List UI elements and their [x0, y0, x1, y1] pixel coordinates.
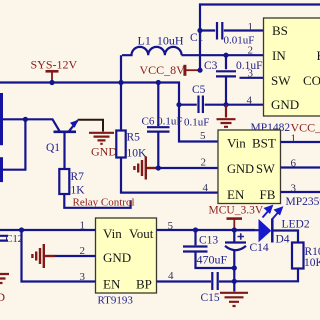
svg-text:5: 5 — [200, 130, 206, 142]
wire BST row — [281, 141, 320, 143]
svg-text:C14: C14 — [250, 242, 269, 254]
svg-text:EN: EN — [103, 277, 121, 292]
wire BP row with C15 — [157, 280, 235, 282]
resistor R7 — [59, 169, 69, 194]
svg-text:BS: BS — [272, 23, 288, 38]
svg-text:C12: C12 — [6, 234, 24, 245]
node BS junction — [197, 28, 202, 33]
node C5 right junction — [223, 102, 228, 107]
wire FB row — [281, 191, 320, 193]
wire pin3 SW row — [240, 77, 264, 79]
ground C5 (earth) — [217, 105, 236, 127]
wire R5 bottom to EN row — [121, 158, 218, 193]
wire bottom gnd stub — [233, 281, 235, 291]
capacitor C15 — [212, 272, 217, 290]
plus sign C14 — [238, 233, 245, 240]
svg-text:1: 1 — [248, 21, 254, 33]
node GND row junction — [156, 165, 161, 170]
svg-text:RT9193: RT9193 — [98, 295, 134, 307]
node C14 top junction — [232, 227, 237, 232]
svg-text:VCC_8V: VCC_8V — [140, 63, 186, 77]
svg-text:Vout: Vout — [129, 226, 154, 241]
node C13 bottom junction — [232, 265, 237, 270]
capacitor C5 — [179, 96, 226, 114]
ground sideways (RT9193 GND pin) — [32, 244, 55, 268]
wire pin1 BS row — [200, 29, 264, 31]
wire GND pin row — [55, 255, 96, 257]
svg-text:C6 0.1uF: C6 0.1uF — [142, 116, 183, 128]
wire C12 column to EN row — [22, 230, 96, 282]
wire pin4 GND row — [226, 104, 264, 106]
svg-text:R5: R5 — [127, 132, 141, 144]
svg-text:2: 2 — [248, 45, 254, 57]
svg-text:C5: C5 — [192, 84, 206, 96]
svg-text:MP2359: MP2359 — [286, 196, 320, 208]
svg-text:C3: C3 — [204, 60, 218, 72]
svg-text:0.1uF: 0.1uF — [184, 117, 209, 129]
node rail-SYS junction — [49, 80, 54, 85]
capacitor C3 — [216, 55, 236, 104]
capacitor C14 polarized — [225, 230, 246, 281]
svg-text:GND: GND — [227, 162, 254, 176]
svg-text:2: 2 — [80, 245, 86, 257]
node VCC_8V junction — [197, 68, 202, 73]
node C3 top junction — [223, 53, 228, 58]
svg-text:10K: 10K — [304, 257, 320, 269]
svg-text:GND: GND — [271, 97, 299, 112]
svg-text:2: 2 — [201, 157, 207, 169]
svg-text:Vin: Vin — [227, 136, 246, 151]
ground bottom (earth) — [220, 293, 248, 306]
wire SYS-12V rail — [0, 83, 218, 142]
node Q1 collector junction — [23, 117, 28, 122]
svg-text:SYS-12V: SYS-12V — [31, 58, 78, 72]
node bottom junction — [232, 279, 237, 284]
svg-text:1: 1 — [291, 132, 297, 144]
svg-text:Relay Control: Relay Control — [73, 197, 135, 209]
svg-text:GND: GND — [103, 250, 131, 265]
svg-text:GND: GND — [91, 145, 117, 159]
svg-text:1: 1 — [80, 219, 86, 231]
svg-text:6: 6 — [291, 158, 297, 170]
wire Q1 emitter to ground — [78, 120, 104, 132]
wire Vin row RT9193 — [0, 229, 96, 231]
transistor Q1 — [0, 119, 79, 169]
IC U2 MP2359 — [218, 130, 281, 204]
svg-text:BST: BST — [252, 136, 276, 151]
wire R5 column — [120, 55, 122, 130]
svg-text:1K: 1K — [71, 185, 86, 197]
svg-text:4: 4 — [168, 270, 174, 282]
svg-text:MCU_3.3V: MCU_3.3V — [209, 205, 264, 217]
resistor R5 — [116, 131, 125, 158]
node C13 top junction — [193, 227, 198, 232]
node C5 left junction — [176, 102, 181, 107]
svg-text:C13: C13 — [199, 235, 218, 247]
svg-text:4: 4 — [203, 182, 209, 194]
wire relay to Q1 collector — [3, 119, 25, 169]
ground sideways (MP2359 GND row) — [134, 157, 157, 180]
wire R10 bottom to gnd row — [234, 269, 298, 282]
svg-text:470uF: 470uF — [197, 253, 228, 267]
wire Vout row — [157, 229, 256, 231]
svg-text:FB: FB — [317, 48, 320, 63]
svg-text:C15: C15 — [201, 292, 220, 304]
IC U3 RT9193 — [96, 218, 157, 293]
svg-text:D4: D4 — [276, 234, 290, 246]
node rail-R5 junction — [118, 80, 123, 85]
capacitor C12 — [0, 236, 8, 241]
svg-text:3: 3 — [291, 182, 297, 194]
relay component left edge — [0, 93, 3, 182]
node rail-C6 junction — [156, 80, 161, 85]
svg-text:5: 5 — [168, 220, 174, 232]
capacitor C13 — [183, 230, 234, 268]
svg-text:SW: SW — [271, 73, 291, 88]
IC U1 MP1482 — [264, 18, 320, 116]
svg-text:BP: BP — [136, 277, 152, 292]
svg-text:SW: SW — [256, 162, 275, 176]
svg-text:C1: C1 — [190, 32, 204, 44]
ground left edge (earth) — [0, 274, 9, 283]
wire relay control net — [64, 194, 130, 208]
wire GND row to U2 — [157, 167, 218, 169]
wire SW row — [281, 166, 320, 168]
ground Q1 emitter (earth) — [89, 133, 114, 144]
wire pin2 IN row — [182, 54, 264, 56]
svg-text:IN: IN — [272, 48, 286, 63]
power port MCU_3.3V — [209, 205, 264, 231]
power port SYS-12V — [31, 58, 78, 83]
resistor R10 — [292, 243, 304, 269]
capacitor C6 — [147, 83, 170, 169]
capacitor C1 — [217, 22, 222, 40]
svg-text:Q1: Q1 — [46, 142, 60, 154]
svg-text:L1 10uH: L1 10uH — [138, 34, 184, 48]
inductor L1 — [122, 47, 182, 55]
svg-text:R7: R7 — [71, 171, 85, 183]
svg-text:GND: GND — [0, 290, 5, 304]
svg-text:4: 4 — [247, 94, 253, 106]
svg-text:FB: FB — [260, 187, 276, 202]
LED D4 — [234, 219, 298, 243]
node C12 junction — [19, 227, 24, 232]
wire top net to BS column — [200, 5, 320, 71]
svg-text:EN: EN — [227, 187, 245, 202]
svg-text:10K: 10K — [127, 148, 148, 160]
LED arrows — [263, 206, 282, 219]
svg-text:Vin: Vin — [103, 226, 122, 241]
svg-text:3: 3 — [80, 271, 86, 283]
svg-text:LED2: LED2 — [282, 219, 310, 231]
power port VCC_8V — [140, 63, 199, 77]
svg-text:COMP: COMP — [303, 73, 320, 88]
